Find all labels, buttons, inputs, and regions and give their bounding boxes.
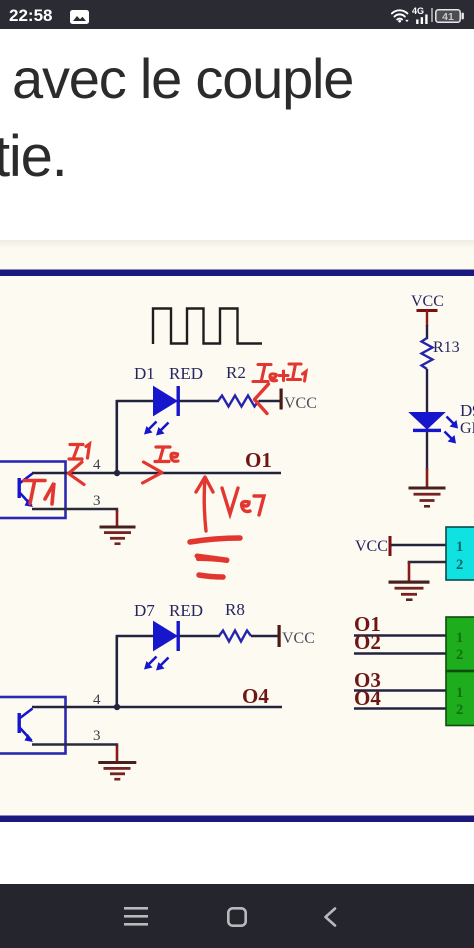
junction pin4/riser bbox=[114, 470, 120, 476]
resistor R2 bbox=[218, 396, 259, 407]
wire R8 to VCC bbox=[251, 635, 278, 637]
svg-text:41: 41 bbox=[442, 11, 454, 23]
svg-text:D9: D9 bbox=[460, 401, 474, 420]
wire pin4 T1 to net O1 bbox=[32, 472, 281, 475]
wire net O3 to header2 pin1 bbox=[354, 689, 447, 692]
svg-text:2: 2 bbox=[456, 702, 463, 718]
ground (opto2 pin3) bbox=[98, 745, 136, 781]
square wave stimulus bbox=[153, 309, 262, 345]
home icon bbox=[227, 907, 247, 927]
transistor T1 bbox=[18, 474, 34, 508]
wire pin3 T1 bbox=[32, 509, 117, 512]
junction pin4/riser (opto2) bbox=[114, 704, 120, 710]
svg-text:O4: O4 bbox=[242, 684, 269, 708]
svg-text:R8: R8 bbox=[225, 600, 245, 619]
wire VCC to R13 bbox=[426, 325, 428, 339]
svg-text:O4: O4 bbox=[354, 686, 381, 710]
svg-text:1: 1 bbox=[456, 539, 463, 555]
svg-text:R13: R13 bbox=[433, 339, 460, 356]
annotation arrowhead at R2/VCC (red) bbox=[255, 384, 269, 414]
wire net O2 to header pin2 bbox=[354, 652, 447, 655]
svg-text:3: 3 bbox=[93, 728, 101, 744]
power VCC (R13 top) bbox=[411, 293, 444, 326]
header connector (green, top) bbox=[446, 617, 474, 671]
wire pin3 opto2 bbox=[32, 745, 117, 748]
svg-text:2: 2 bbox=[456, 647, 463, 663]
LED D1 bbox=[144, 386, 180, 436]
ground (T1 pin3) bbox=[100, 510, 136, 545]
svg-text:D1: D1 bbox=[134, 364, 155, 383]
svg-text:D7: D7 bbox=[134, 601, 155, 620]
annotation Ie+I1 (red handwriting) bbox=[253, 364, 306, 382]
svg-text:3: 3 bbox=[93, 493, 101, 509]
annotation T1 (red) bbox=[24, 481, 54, 505]
svg-text:2: 2 bbox=[456, 557, 463, 573]
battery bbox=[435, 9, 464, 23]
menu icon bbox=[124, 907, 148, 926]
svg-text:VCC: VCC bbox=[355, 538, 388, 555]
annotation Ie (red) bbox=[143, 447, 179, 483]
wire vertical riser left (bottom section) bbox=[116, 635, 119, 707]
wire header pin2 to ground bbox=[409, 562, 446, 564]
gallery icon bbox=[70, 10, 89, 24]
header connector (cyan) bbox=[446, 527, 474, 580]
wire D7 cathode to R8 bbox=[180, 635, 221, 637]
4G + signal bars bbox=[412, 6, 424, 16]
svg-text:RED: RED bbox=[169, 364, 203, 383]
schematic area bbox=[0, 240, 474, 822]
back icon bbox=[323, 907, 337, 927]
annotation I1 (red) bbox=[69, 444, 90, 485]
svg-text:RED: RED bbox=[169, 601, 203, 620]
svg-text:1: 1 bbox=[456, 685, 463, 701]
svg-text:VCC: VCC bbox=[284, 395, 317, 412]
schematic sheet border top bbox=[0, 270, 474, 277]
svg-text:VCC: VCC bbox=[282, 630, 315, 647]
ground (header pin2) bbox=[389, 581, 430, 602]
resistor R13 bbox=[422, 338, 433, 369]
wire pin4 opto2 to net O4 bbox=[32, 706, 282, 709]
power VCC (header J-) bbox=[355, 536, 392, 556]
wire net O1 to header pin1 bbox=[354, 634, 447, 637]
annotation hand-drawn ground (red) bbox=[190, 538, 240, 577]
optocoupler 2 box bbox=[0, 697, 66, 754]
svg-text:VCC: VCC bbox=[411, 293, 444, 310]
wire D1 cathode to R2 bbox=[180, 400, 220, 402]
wire D9 to ground bbox=[426, 432, 428, 470]
svg-text:1: 1 bbox=[456, 630, 463, 646]
annotation Ve arrow (red) bbox=[196, 477, 213, 531]
wire R2 to VCC bbox=[259, 400, 281, 402]
status bar bbox=[0, 0, 474, 29]
wire vertical riser left (top section) bbox=[116, 400, 119, 473]
annotation Ve7 text (red) bbox=[222, 488, 264, 515]
LED D9 bbox=[410, 413, 459, 444]
svg-text:4: 4 bbox=[93, 457, 101, 473]
resistor R8 bbox=[219, 631, 251, 642]
wifi icon bbox=[391, 9, 410, 23]
wire VCC to header pin1 bbox=[391, 544, 447, 547]
main document text bbox=[12, 46, 353, 111]
svg-text:R2: R2 bbox=[226, 363, 246, 382]
LED D7 bbox=[144, 621, 180, 671]
wire D7 anode bbox=[116, 635, 154, 637]
schematic sheet border bottom bbox=[0, 816, 474, 823]
wire net O4 to header2 pin2 bbox=[354, 707, 447, 710]
svg-text:GR: GR bbox=[460, 420, 474, 437]
ground (D9) bbox=[409, 468, 446, 508]
wire D1 anode bbox=[116, 400, 154, 402]
navigation bar bbox=[0, 884, 474, 948]
svg-text:4: 4 bbox=[93, 692, 101, 708]
power VCC bar (R2) bbox=[280, 389, 283, 410]
svg-text:O1: O1 bbox=[245, 448, 272, 472]
power VCC bar (R8) bbox=[278, 625, 281, 647]
separator bbox=[431, 8, 433, 22]
header connector (green, bottom) bbox=[446, 672, 474, 726]
wire R13 to D9 bbox=[426, 369, 428, 413]
optocoupler T1 box bbox=[0, 462, 66, 519]
transistor (optocoupler 2) bbox=[18, 709, 34, 743]
svg-text:O2: O2 bbox=[354, 630, 381, 654]
